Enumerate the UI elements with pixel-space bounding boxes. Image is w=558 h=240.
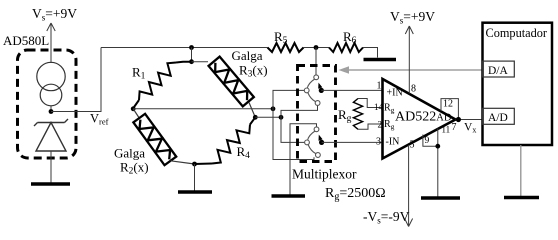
svg-text:Galga: Galga [114, 146, 145, 161]
wire to ground [50, 151, 52, 184]
svg-text:AD580L: AD580L [3, 33, 49, 48]
svg-text:Multiplexor: Multiplexor [292, 167, 357, 182]
svg-text:Computador: Computador [486, 26, 547, 40]
node R5/R6 junction [314, 45, 319, 50]
node rail/bridge junction [189, 45, 194, 50]
pin 12 sense loop [441, 99, 458, 120]
wire [304, 47, 330, 49]
svg-text:11: 11 [442, 125, 451, 135]
wire top rail [101, 47, 268, 49]
node bridge bottom [192, 162, 197, 167]
wire [191, 48, 193, 63]
svg-text:Galga: Galga [232, 48, 263, 63]
svg-text:Rg=2500Ω: Rg=2500Ω [325, 186, 386, 203]
wire [249, 103, 255, 118]
wire Rg to pin 2 [358, 124, 384, 129]
svg-text:+IN: +IN [387, 88, 403, 99]
svg-text:2: 2 [378, 120, 383, 130]
wire S2 output to -IN [322, 141, 383, 143]
wire bridge bottom to ground [194, 164, 196, 191]
computador box [483, 23, 553, 145]
svg-text:8: 8 [411, 84, 416, 95]
ground (bridge) [178, 190, 212, 193]
node bridge right [253, 115, 258, 120]
wire [50, 50, 52, 63]
resistor Rg [353, 99, 362, 130]
wire Vref to top rail [51, 48, 101, 112]
svg-text:-Vs=-9V: -Vs=-9V [363, 209, 410, 226]
wire S1 output to +IN [321, 89, 383, 91]
svg-text:9: 9 [425, 136, 430, 146]
svg-text:R2(x): R2(x) [120, 160, 149, 177]
current source circle (bottom) [40, 84, 62, 106]
AD580L dashed box [18, 50, 77, 158]
mux switch S1 [304, 75, 324, 106]
svg-text:1: 1 [377, 81, 382, 92]
node bridge left [131, 106, 136, 111]
wire R6 to ground [363, 48, 378, 58]
svg-text:Vs=+9V: Vs=+9V [32, 6, 77, 23]
ground (multiplexor) [272, 194, 306, 197]
node Vx [456, 117, 461, 122]
mux switch S2 [305, 127, 325, 157]
svg-text:AD522AD: AD522AD [395, 110, 452, 125]
ground (amplifier) [421, 196, 460, 199]
+9V supply arrow (left) [47, 23, 55, 50]
ground (R6) [364, 58, 397, 61]
svg-text:Vs=+9V: Vs=+9V [390, 9, 435, 26]
svg-text:5: 5 [410, 140, 415, 151]
wire feed A vertical [273, 90, 314, 159]
resistor R4 [212, 125, 250, 164]
wire bridge right to mux [255, 116, 281, 118]
wire bridge left to mux [133, 108, 273, 110]
wire Rg to pin 14 [358, 99, 384, 108]
svg-text:A/D: A/D [488, 112, 508, 124]
ground (AD580L) [31, 182, 70, 185]
multiplexor dashed box [298, 66, 336, 162]
resistor R1 [139, 63, 176, 101]
computador ground wire (gray) [520, 145, 522, 196]
A/D box [483, 108, 515, 124]
op-amp U1 AD522AD triangle [383, 79, 456, 159]
wire mux to ground [290, 124, 317, 195]
wire R5/R6 junction down to switch [315, 48, 317, 76]
svg-text:D/A: D/A [488, 65, 509, 77]
D/A box [483, 61, 515, 77]
wire [50, 106, 52, 112]
ground (computador) [504, 196, 539, 199]
pin 11/9 wire to ground [423, 129, 438, 197]
pin 8 wire to +9V [405, 26, 413, 94]
svg-text:7: 7 [452, 122, 457, 133]
wire [171, 161, 195, 164]
output wire pin 7 [456, 119, 483, 121]
svg-text:R3(x): R3(x) [239, 63, 268, 80]
node mux feed B [279, 115, 284, 120]
svg-text:14: 14 [374, 102, 384, 112]
current source circle (top) [37, 62, 65, 90]
node pin9 junction [435, 144, 440, 149]
resistor R6 [329, 43, 363, 52]
pin 5 wire to -9V [405, 145, 413, 227]
wire [133, 109, 139, 118]
node mux feed A [271, 106, 276, 111]
svg-text:12: 12 [443, 99, 453, 110]
D/A control line (gray) [348, 69, 483, 71]
svg-text:-IN: -IN [386, 137, 400, 148]
strain gauge R2 [133, 114, 176, 165]
wire feed B vertical [281, 105, 318, 142]
node bridge top [189, 59, 194, 64]
svg-text:3: 3 [376, 137, 381, 148]
resistor R5 [268, 43, 304, 52]
wire [192, 61, 209, 63]
node Vref junction [49, 109, 54, 114]
zener diode [34, 119, 68, 151]
strain gauge R3 [209, 57, 254, 107]
